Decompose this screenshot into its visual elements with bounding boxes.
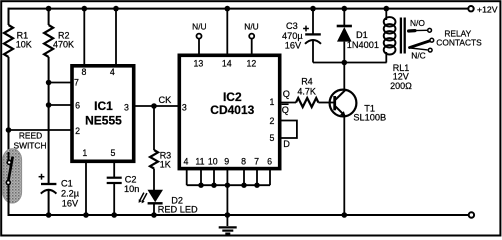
wire pin1 to R4 (280, 102, 297, 104)
node bus pin11 (198, 183, 203, 188)
wire top +12V rail (9, 8, 468, 10)
svg-text:9: 9 (224, 157, 229, 167)
wire C3/D1/relay bottom (313, 62, 387, 64)
svg-text:4: 4 (183, 157, 188, 167)
svg-text:5: 5 (110, 148, 115, 158)
node R2 top rail (46, 6, 52, 12)
capacitor C3 (282, 9, 321, 63)
svg-text:CK: CK (159, 95, 173, 105)
IC2 CD4013 (179, 55, 279, 168)
svg-text:D1: D1 (356, 30, 368, 40)
IC1 NE555 (72, 66, 134, 162)
wire R3 to D2 (153, 169, 155, 191)
svg-text:1: 1 (82, 148, 87, 158)
reed contact bottom (6, 181, 10, 185)
diode D1 (337, 9, 379, 63)
wire bus to bottom rail (226, 185, 228, 215)
svg-text:7: 7 (74, 77, 79, 87)
wire collector to D1 junction (343, 63, 345, 92)
svg-text:C2: C2 (125, 175, 137, 185)
node C1 bottom (46, 212, 52, 218)
node pin3/R3 junction (151, 103, 157, 109)
wire pin6 (49, 104, 71, 106)
svg-text:16V: 16V (285, 40, 302, 50)
node pin1 bottom (83, 212, 89, 218)
wire pin8 to rail (83, 9, 85, 65)
svg-text:16V: 16V (62, 198, 79, 208)
svg-text:C3: C3 (286, 21, 298, 31)
svg-text:+12V: +12V (477, 5, 498, 15)
svg-text:470µ: 470µ (282, 31, 303, 41)
svg-text:REED: REED (19, 131, 42, 141)
svg-text:3: 3 (124, 102, 129, 112)
svg-text:14: 14 (222, 58, 232, 68)
wire pin4 to rail (115, 9, 117, 65)
node pin8 rail (82, 6, 88, 12)
node junction pin7 (46, 80, 52, 86)
node pin14 rail (225, 6, 231, 12)
resistor R4 (296, 76, 318, 107)
svg-text:200Ω: 200Ω (390, 81, 412, 91)
svg-text:10: 10 (208, 157, 218, 167)
svg-text:5: 5 (270, 133, 275, 143)
terminal bottom right (469, 212, 474, 217)
svg-text:13: 13 (194, 58, 204, 68)
resistor R1 (4, 25, 32, 57)
wire pin5 to C2 (113, 162, 115, 178)
resistor R3 (150, 150, 171, 170)
svg-text:2.2µ: 2.2µ (61, 189, 80, 199)
svg-text:SWITCH: SWITCH (13, 140, 46, 150)
svg-text:6: 6 (75, 101, 80, 111)
capacitor C2 (107, 175, 140, 216)
node C2 bottom (111, 212, 117, 218)
IC2 bottom pin stubs and bus (187, 168, 270, 186)
svg-text:3: 3 (182, 102, 187, 112)
node coil top rail (384, 6, 390, 12)
wire pin1 to bottom rail (85, 162, 87, 216)
svg-text:IC1: IC1 (94, 99, 113, 113)
svg-text:10n: 10n (124, 184, 139, 194)
svg-text:1: 1 (270, 97, 275, 107)
wire bottom rail (9, 214, 469, 216)
svg-text:1K: 1K (160, 160, 171, 170)
svg-text:8: 8 (241, 157, 246, 167)
transistor T1 (330, 90, 387, 123)
svg-text:6: 6 (267, 157, 272, 167)
wire reed to bottom rail (8, 185, 10, 216)
svg-text:SL100B: SL100B (353, 112, 386, 122)
node gnd junction (225, 212, 231, 218)
wire into reed (8, 152, 10, 160)
svg-text:7: 7 (254, 157, 259, 167)
svg-text:NE555: NE555 (85, 113, 122, 127)
node bus pin9 (225, 183, 230, 188)
reed switch capsule (3, 149, 22, 203)
reed contact top (7, 160, 11, 164)
relay contacts (409, 18, 434, 61)
label Qbar (282, 104, 289, 115)
node D2 bottom (151, 212, 157, 218)
node bus pin7 (254, 183, 259, 188)
ground (219, 215, 237, 234)
node junction pin6 (46, 102, 52, 108)
svg-text:CONTACTS: CONTACTS (436, 37, 482, 47)
wire junction to R3 (153, 106, 155, 150)
svg-text:470K: 470K (53, 40, 74, 50)
node bus pin8 (241, 183, 246, 188)
svg-text:8: 8 (82, 67, 87, 77)
svg-text:N/U: N/U (192, 21, 206, 31)
wire pin2 (9, 129, 72, 131)
node pin4 rail (113, 6, 119, 12)
svg-text:11: 11 (195, 157, 204, 167)
svg-text:CD4013: CD4013 (210, 103, 254, 117)
svg-text:4: 4 (110, 67, 115, 77)
svg-text:N/O: N/O (410, 18, 425, 28)
wire left rail upper (8, 8, 10, 25)
node junction pin2/left rail (6, 127, 12, 133)
svg-text:2: 2 (270, 116, 275, 126)
svg-text:D: D (283, 139, 290, 149)
svg-text:Q: Q (283, 89, 290, 99)
wire pin14 to rail (226, 9, 228, 55)
svg-text:12: 12 (247, 58, 257, 68)
resistor R2 (44, 9, 74, 57)
svg-text:Q: Q (282, 105, 289, 115)
node emitter bottom rail (342, 212, 348, 218)
svg-text:10K: 10K (16, 40, 32, 50)
wire pin3 CK (134, 105, 179, 107)
svg-text:2: 2 (75, 126, 80, 136)
wire R4 to base (318, 102, 333, 104)
node D1/collector junction (342, 60, 348, 66)
svg-text:N/U: N/U (244, 21, 258, 31)
wire left rail middle (8, 57, 10, 160)
node D1 top rail (342, 6, 348, 12)
reed switch lever (8, 157, 13, 183)
svg-text:RED LED: RED LED (158, 204, 198, 214)
terminal N/U pin12 (244, 21, 258, 55)
node C3 top rail (310, 6, 316, 12)
svg-text:N/C: N/C (411, 51, 425, 61)
wire D2 to bottom rail (153, 203, 155, 215)
wire pin7 (49, 82, 71, 84)
capacitor C1 (39, 174, 80, 215)
svg-text:1N4001: 1N4001 (347, 40, 379, 50)
terminal +12V (468, 6, 473, 11)
wire emitter to bottom rail (343, 115, 345, 215)
svg-text:C1: C1 (61, 179, 73, 189)
svg-text:4.7K: 4.7K (297, 87, 316, 97)
terminal N/U pin13 (192, 21, 206, 55)
LED D2 (139, 190, 198, 215)
relay coil RL1 (384, 9, 412, 91)
node bus pin10 (211, 183, 216, 188)
wire R2 to C1 (48, 57, 50, 184)
wire pin2 Qbar loop to D (280, 121, 297, 139)
svg-text:R4: R4 (301, 76, 313, 86)
label RELAY CONTACTS (436, 29, 482, 48)
